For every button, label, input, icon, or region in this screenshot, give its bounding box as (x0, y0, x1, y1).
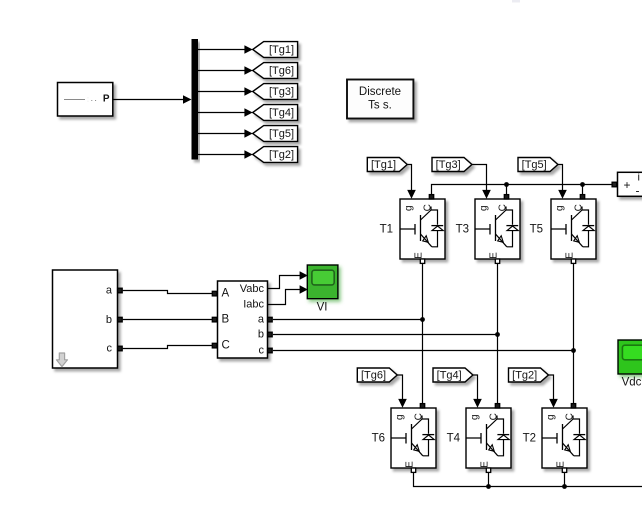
subsystem P block (58, 83, 113, 117)
transistor T2 (542, 408, 587, 468)
stub T4 emitter to bus (488, 473, 490, 487)
svg-text:T6: T6 (372, 433, 385, 445)
T4 collector port (495, 404, 499, 408)
svg-text:[Tg1]: [Tg1] (269, 44, 294, 56)
scope Vdc (618, 340, 642, 374)
svg-text:A: A (222, 288, 230, 300)
svg-text:T5: T5 (530, 224, 543, 236)
svg-text:b: b (106, 314, 112, 326)
T3 emitter port (495, 259, 499, 263)
transistor T4 (466, 408, 511, 468)
svg-text:i: i (638, 172, 640, 184)
svg-text:B: B (222, 314, 230, 326)
wire mux to Tg2 (198, 150, 253, 159)
source port c (118, 346, 123, 351)
meas port b (268, 332, 273, 337)
phase B vertical wire (497, 264, 499, 403)
svg-text:a: a (258, 314, 265, 326)
junction dot T5 (580, 182, 585, 187)
wire mux to Tg5 (198, 129, 253, 138)
wire Tg3 to T3 gate (472, 165, 491, 199)
source subsystem block (53, 270, 118, 368)
faint top-edge artifact (512, 0, 520, 3)
T3 collector port (504, 195, 508, 199)
three-phase VI measurement block (218, 281, 268, 358)
wire mux to Tg3 (198, 87, 253, 96)
from tag Tg1 (367, 158, 407, 172)
bottom bus wire (414, 473, 642, 487)
T5 collector port (580, 195, 584, 199)
scope VI (307, 265, 338, 299)
svg-text:T1: T1 (380, 224, 393, 236)
svg-text:T2: T2 (523, 433, 536, 445)
transistor T5 (551, 199, 596, 259)
goto tag Tg6 (253, 63, 298, 79)
from tag Tg2 (509, 368, 549, 382)
svg-text:[Tg4]: [Tg4] (269, 107, 294, 119)
T4 emitter port (486, 468, 490, 472)
mux bar (192, 39, 199, 160)
svg-text:Discrete: Discrete (359, 86, 401, 98)
T2 collector port (571, 404, 575, 408)
goto tag Tg1 (253, 42, 298, 58)
svg-text:P: P (103, 94, 110, 105)
junction dot T4 bus (486, 484, 491, 489)
powergui block Discrete (347, 80, 413, 119)
transistor T1 (400, 199, 445, 259)
svg-text:[Tg1]: [Tg1] (371, 159, 396, 171)
svg-text:[Tg6]: [Tg6] (269, 65, 294, 77)
wire mux to Tg4 (198, 108, 253, 117)
junction dot phase A (420, 317, 425, 322)
svg-text:Vabc: Vabc (240, 283, 265, 295)
junction dot phase B (495, 332, 500, 337)
T1 emitter port (420, 259, 424, 263)
T2 emitter port (562, 468, 566, 472)
svg-text:c: c (259, 345, 265, 357)
current measurement block (618, 172, 642, 198)
svg-text:[Tg2]: [Tg2] (269, 149, 294, 161)
svg-text:[Tg3]: [Tg3] (269, 86, 294, 98)
svg-text:[Tg3]: [Tg3] (436, 159, 461, 171)
wire P to mux (113, 99, 185, 101)
svg-text:-: - (636, 184, 640, 198)
meas port B (212, 317, 217, 322)
source port b (118, 317, 123, 322)
svg-text:T4: T4 (447, 433, 461, 445)
T1 collector port (429, 195, 433, 199)
wire mux to Tg1 (198, 45, 253, 54)
wire mux to Tg6 (198, 66, 253, 75)
svg-text:a: a (106, 285, 113, 297)
meas port C (212, 343, 217, 348)
T6 collector port (420, 404, 424, 408)
wire source a to meas A (123, 291, 213, 294)
meas port a (268, 317, 273, 322)
svg-text:[Tg4]: [Tg4] (437, 370, 462, 382)
svg-text:C: C (222, 340, 230, 352)
goto tag Tg2 (253, 147, 298, 163)
wire Tg6 to T6 gate (397, 375, 407, 408)
wire Tg2 to T2 gate (548, 375, 557, 408)
transistor T3 (475, 199, 520, 259)
junction dot T3 (504, 182, 509, 187)
wire Tg5 to T5 gate (558, 165, 567, 199)
svg-text:VI: VI (317, 302, 328, 314)
svg-text:[Tg6]: [Tg6] (361, 370, 386, 382)
svg-text:Ts s.: Ts s. (368, 100, 392, 112)
svg-text:c: c (107, 343, 113, 355)
junction dot phase C (571, 348, 576, 353)
wire meas a to phase A (273, 319, 423, 321)
phase A vertical wire (422, 264, 424, 403)
from tag Tg3 (432, 158, 472, 172)
wire meas b to phase B (273, 334, 498, 336)
svg-text:[Tg2]: [Tg2] (512, 370, 537, 382)
svg-text:[Tg5]: [Tg5] (522, 159, 547, 171)
svg-text:Iabc: Iabc (243, 299, 264, 311)
svg-text:[Tg5]: [Tg5] (269, 128, 294, 140)
T6 emitter port (411, 468, 415, 472)
T5 emitter port (571, 259, 575, 263)
wire Tg4 to T4 gate (473, 375, 482, 408)
from tag Tg5 (518, 158, 558, 172)
wire source b to meas B (123, 319, 213, 321)
svg-text:Vdc: Vdc (622, 376, 642, 388)
svg-text:T3: T3 (456, 224, 469, 236)
meas port c (268, 348, 273, 353)
wire Iabc to scope (268, 285, 308, 304)
goto tag Tg5 (253, 126, 298, 142)
current block port (612, 182, 617, 187)
wire meas c to phase C (273, 350, 574, 352)
from tag Tg4 (433, 368, 473, 382)
svg-text:——— : . .: ——— : . . (64, 96, 97, 103)
from tag Tg6 (357, 368, 397, 382)
stub to T5 collector (582, 185, 584, 195)
svg-text:b: b (258, 329, 264, 341)
wire Tg1 to T1 gate (407, 165, 416, 199)
wire Vabc to scope (268, 271, 308, 288)
wire source c to meas C (123, 346, 213, 349)
goto tag Tg3 (253, 84, 298, 100)
top DC bus wire (432, 185, 613, 195)
goto tag Tg4 (253, 105, 298, 121)
meas port A (212, 291, 217, 296)
stub to T3 collector (506, 185, 508, 195)
transistor T6 (391, 408, 436, 468)
source port a (118, 288, 123, 293)
phase C vertical wire (573, 264, 575, 403)
junction dot T2 bus (562, 484, 567, 489)
stub T2 emitter to bus (564, 473, 566, 487)
svg-text:+: + (624, 178, 631, 192)
